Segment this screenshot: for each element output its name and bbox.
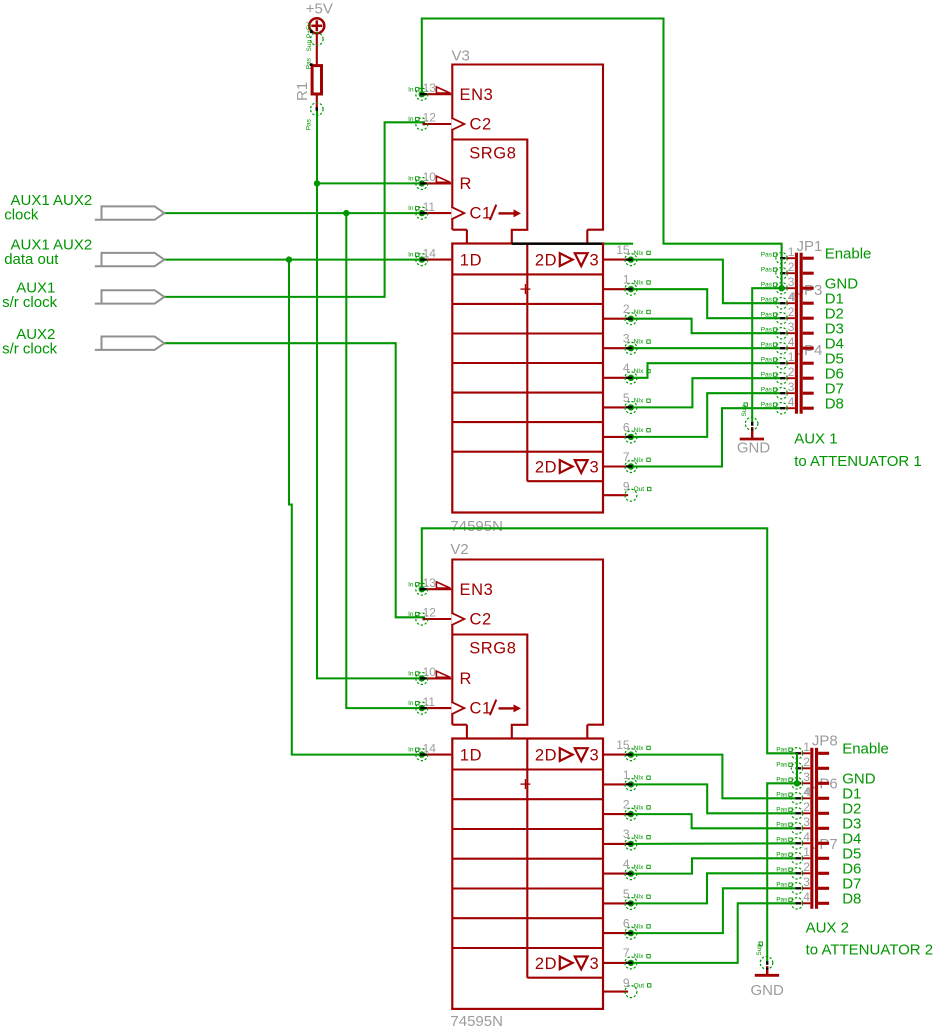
IC V2: pin 13 [408,576,451,595]
svg-text:+5V: +5V [306,1,333,18]
svg-text:Out: Out [634,982,645,989]
connector double-line bars [810,748,818,909]
IC V3: pin 10 [408,170,451,189]
IC V3: clock input mark [451,118,464,130]
svg-text:74595N: 74595N [450,1013,503,1030]
svg-text:Pas: Pas [776,746,788,753]
IC V2: clock input mark [451,702,464,714]
svg-text:NIx: NIx [634,368,645,375]
svg-text:GND: GND [751,982,785,999]
IC V3: pin label R [460,175,473,193]
svg-text:Pas: Pas [776,821,788,828]
IC V3: register block grid [452,244,603,513]
power +5V supply symbol [306,1,333,66]
wire: net DATA (AUX1 AUX2 data out) flag to V3 pin14 1D [164,259,422,261]
svg-text:3: 3 [788,320,795,334]
svg-text:5: 5 [623,887,630,901]
svg-text:2: 2 [803,755,810,769]
svg-text:C1: C1 [470,700,492,718]
svg-text:Pas: Pas [761,341,773,348]
svg-text:to ATTENUATOR 2: to ATTENUATOR 2 [806,942,934,959]
svg-text:12: 12 [423,606,437,620]
svg-text:2D: 2D [535,955,557,973]
svg-text:2: 2 [623,302,630,316]
svg-text:NIx: NIx [634,834,645,841]
IC V2: pin 3 (output) [603,827,650,850]
svg-text:Out: Out [634,486,645,493]
svg-text:4: 4 [788,335,795,349]
wire: net RESET branch down to V2 pin10 R [317,183,422,678]
svg-text:data out: data out [4,251,59,268]
net label D7 (JP1 side) [825,381,844,398]
wire: pins 1-2-3 tie [796,753,798,783]
svg-text:SRG8: SRG8 [469,640,516,658]
IC V2 74595N: control block outline [452,560,603,739]
IC V3: cell label 1D [460,252,482,270]
svg-text:3: 3 [788,380,795,394]
IC V2: pin label C2 [470,611,492,629]
svg-text:74595N: 74595N [450,518,503,535]
IC V2: cell label 1D [460,747,482,765]
connector pin row 2 [761,365,814,384]
IC V3: pin label C1/-> [470,205,522,223]
connector pin row 4 [761,395,814,414]
connector pin row 2 [776,755,829,774]
net label D8 (JP1 side) [825,396,844,413]
svg-text:Pas: Pas [761,326,773,333]
input flag: AUX2 s/r clock [2,326,164,358]
svg-text:Pas: Pas [776,776,788,783]
svg-text:3: 3 [803,770,810,784]
svg-text:1D: 1D [460,747,482,765]
IC V2: pin edge-triangle mark [436,582,450,588]
IC V2: cell label 2D&gt;v3 top [535,747,599,765]
connector pin row 3 [776,815,829,834]
wire: V3 Q outputs to JP1/JP3/JP4 D1..D8 [631,260,782,467]
connector label JP7 [812,836,838,853]
svg-text:R: R [460,670,473,688]
svg-text:2: 2 [623,798,630,812]
svg-text:R: R [460,175,473,193]
net label D1 (JP8 side) [842,786,861,803]
svg-text:In: In [408,671,414,678]
svg-text:Pas: Pas [776,791,788,798]
overlap: wire over V3 register top edge [512,243,602,245]
junction: DATA net branch [286,256,292,262]
svg-text:In: In [408,86,414,93]
svg-text:6: 6 [623,420,630,434]
connector label JP1 [797,238,823,255]
svg-text:1: 1 [623,768,630,782]
svg-text:15: 15 [616,243,630,257]
svg-text:AUX 1: AUX 1 [794,430,837,447]
svg-text:Pas: Pas [305,118,312,130]
IC V3: pin 15 (output) [603,243,650,266]
svg-text:Pas: Pas [776,881,788,888]
connector pin row 1 [761,245,814,264]
IC V3: pin 3 (output) [603,332,650,355]
svg-text:R1: R1 [294,82,311,101]
connector pin row 4 [761,290,814,309]
wire: net RESET from R1 to V3 pin10 R [316,109,318,183]
svg-text:In: In [408,252,414,259]
IC V3: pin label C2 [470,116,492,134]
svg-text:EN3: EN3 [460,581,494,599]
svg-text:1: 1 [803,740,810,754]
svg-text:11: 11 [423,200,436,214]
ground GND symbol (lower, AUX2) [751,942,785,999]
wire: net CLOCK branch down to V2 pin11 C1 [346,213,422,708]
svg-text:NIx: NIx [634,250,645,257]
svg-text:Pas: Pas [761,386,773,393]
IC V2: pin 15 (output) [603,738,650,761]
label to ATTENUATOR 2 [806,942,934,959]
svg-text:13: 13 [423,576,437,590]
IC V3: pin 7 (output) [603,450,650,473]
connector pin row 3 [761,380,814,399]
net label D3 (JP8 side) [842,816,861,833]
svg-text:5: 5 [623,391,630,405]
svg-text:4: 4 [789,290,796,304]
input flag: AUX1 AUX2 clock [4,192,164,224]
svg-text:4: 4 [803,890,810,904]
IC V2: clock input mark [451,613,464,625]
IC V3: pin 6 (output) [603,420,650,443]
IC V3 74595N: control block outline [452,65,603,244]
connector pin row 2 [776,860,829,879]
net label D6 (JP1 side) [825,366,844,383]
svg-text:s/r clock: s/r clock [2,294,58,311]
svg-text:Pas: Pas [761,266,773,273]
ground GND symbol (upper, AUX1) [737,403,771,457]
svg-text:15: 15 [616,738,630,752]
IC V3: pin edge-triangle mark [436,176,450,182]
IC V2: pin 10 [408,665,451,684]
svg-text:1: 1 [788,350,795,364]
svg-text:In: In [408,700,414,707]
svg-text:Pas: Pas [776,761,788,768]
net label D5 (JP1 side) [825,351,844,368]
svg-text:NIx: NIx [634,864,645,871]
svg-text:12: 12 [423,111,437,125]
svg-text:7: 7 [623,946,630,960]
IC V2: cell label 2D&gt;v3 bottom [535,955,599,973]
IC V3: label SRG8 [469,145,516,163]
connector label JP4 [797,342,823,359]
svg-text:2: 2 [788,305,795,319]
wire: GND net JP8 pin3 down to ground symbol [767,783,797,962]
svg-text:Pas: Pas [761,401,773,408]
svg-text:2: 2 [803,860,810,874]
net label D5 (JP8 side) [842,846,861,863]
svg-text:C2: C2 [470,116,492,134]
svg-text:D8: D8 [825,396,844,413]
IC V2: pin 11 [408,695,451,714]
svg-text:10: 10 [423,665,437,679]
label V3 [452,47,470,64]
IC V2: pin 6 (output) [603,917,650,940]
net label D2 (JP8 side) [842,801,861,818]
svg-text:2: 2 [803,800,810,814]
svg-text:Pas: Pas [776,851,788,858]
IC V2: pin label EN3 [460,581,494,599]
svg-text:2D: 2D [535,459,557,477]
junction on GND pin row 3 [794,780,800,786]
label to ATTENUATOR 1 [794,453,922,470]
svg-text:V2: V2 [450,541,468,558]
net label GND (JP1 side) [825,276,859,293]
connector pin row 4 [776,890,829,909]
connector pin row 1 [776,845,829,864]
connector label JP8 [812,733,838,750]
svg-text:4: 4 [805,785,812,799]
svg-text:3: 3 [590,955,600,973]
connector pin row 3 [761,275,814,294]
label V2 [450,541,468,558]
svg-text:2: 2 [788,365,795,379]
svg-text:s/r clock: s/r clock [2,341,58,358]
svg-text:In: In [408,176,414,183]
svg-text:Pas: Pas [761,281,773,288]
IC V2: pin 12 [408,606,451,625]
IC V2: pin edge-triangle mark [436,671,450,677]
svg-text:3: 3 [590,747,600,765]
IC V2: pin 2 (output) [603,798,650,821]
connector pin row 3 [776,875,829,894]
svg-text:In: In [408,581,414,588]
wire end overlap at V2 pin12 [423,618,426,621]
svg-text:AUX 2: AUX 2 [806,920,849,937]
svg-text:EN3: EN3 [460,86,494,104]
connector pin row 2 [761,260,814,279]
svg-text:3: 3 [788,275,795,289]
wire: net SRCLK1 (AUX1 s/r clock) flag to V3 pin12 C2 [164,122,425,297]
svg-text:Pas: Pas [776,836,788,843]
net label GND (JP8 side) [842,771,876,788]
svg-text:NIx: NIx [634,894,645,901]
net label D4 (JP8 side) [842,831,861,848]
IC V2: origin cross [520,779,530,789]
svg-text:In: In [408,747,414,754]
svg-text:14: 14 [423,246,437,260]
svg-text:In: In [408,205,414,212]
junction: CLOCK net branch [343,210,349,216]
svg-text:Pas: Pas [776,866,788,873]
svg-text:NIx: NIx [634,280,645,287]
wire: net DATA branch down to V2 pin14 1D [289,260,422,755]
wire: net CLOCK (AUX1 AUX2 clock) flag to V3 pin11 C1 [164,212,422,214]
IC V3: pin 1 (output) [603,273,650,296]
connector pin row 1 [761,350,814,369]
svg-text:Sup P+5V: Sup P+5V [306,21,313,51]
IC V3: pin 12 [408,111,451,130]
svg-text:NIx: NIx [634,398,645,405]
IC V2: pin 5 (output) [603,887,650,910]
IC V3: cell label 2D&gt;v3 bottom [535,459,599,477]
IC V3: clock input mark [451,207,464,219]
net label Enable (JP8 side) [842,741,889,758]
svg-text:In: In [408,611,414,618]
wire: pins 1-2-3 tie [781,258,783,288]
IC V3: pin 5 (output) [603,391,650,414]
svg-text:NIx: NIx [634,309,645,316]
net label D1 (JP1 side) [825,291,844,308]
svg-text:NIx: NIx [634,923,645,930]
IC V2: label SRG8 [469,640,516,658]
svg-text:NIx: NIx [634,804,645,811]
svg-text:2: 2 [788,260,795,274]
IC V3: origin cross [520,284,530,294]
svg-text:NIx: NIx [634,427,645,434]
svg-text:3: 3 [623,827,630,841]
resistor R1 [294,57,323,130]
net label D2 (JP1 side) [825,306,844,323]
IC V3: cell label 2D&gt;v3 top [535,252,599,270]
svg-text:Pas: Pas [761,296,773,303]
wire: net SRCLK2 (AUX2 s/r clock) flag to V2 pin12 C2 [164,343,425,617]
svg-text:Pas: Pas [761,311,773,318]
IC V2: pin 1 (output) [603,768,650,791]
connector pin row 2 [761,305,814,324]
svg-text:NIx: NIx [634,775,645,782]
wire end overlap at V3 pin12 [423,123,426,126]
svg-text:3: 3 [803,875,810,889]
svg-text:3: 3 [623,332,630,346]
svg-text:V3: V3 [452,47,470,64]
junction: RESET net branch [314,180,320,186]
IC V2: SRG8 inner box [452,635,527,739]
net label D4 (JP1 side) [825,336,844,353]
svg-text:13: 13 [423,81,437,95]
connector pin row 3 [761,320,814,339]
IC V3: pin 14 [408,246,451,265]
svg-text:JP8: JP8 [812,733,838,750]
svg-text:3: 3 [803,815,810,829]
IC V3: pin label EN3 [460,86,494,104]
connector label JP3 [797,282,823,299]
svg-text:Enable: Enable [825,246,872,263]
net label D6 (JP8 side) [842,861,861,878]
svg-text:C1: C1 [470,205,492,223]
svg-text:9: 9 [623,976,630,990]
svg-text:Pas: Pas [776,806,788,813]
svg-text:9: 9 [623,480,630,494]
svg-text:JP1: JP1 [797,238,823,255]
net label D8 (JP8 side) [842,891,861,908]
net label D7 (JP8 side) [842,876,861,893]
svg-text:Enable: Enable [842,741,889,758]
wire: V2 Q outputs to JP8/JP6/JP7 D1..D8 [631,755,797,963]
label AUX 1 [794,430,837,447]
svg-text:1: 1 [803,845,810,859]
wire: net ENABLE2 from V2 EN3 pin13 to JP8 pin1 [422,528,797,753]
IC V3: pin 4 (output) [603,361,650,384]
IC V3: pin 11 [408,200,451,219]
value 74595N (V3) [450,518,503,535]
input flag: AUX1 AUX2 data out [4,236,164,268]
IC V2: pin 4 (output) [603,857,650,880]
IC V3: pin 2 (output) [603,302,650,325]
IC V2: register block grid [452,739,603,1009]
IC V3: pin edge-triangle mark [436,87,450,93]
svg-text:4: 4 [623,361,630,375]
IC V2: pin 14 [408,741,451,760]
svg-text:Pas: Pas [761,251,773,258]
input flag: AUX1 s/r clock [2,279,164,311]
net label Enable (JP1 side) [825,246,872,263]
IC V2: pin 7 (output) [603,946,650,969]
connector pin row 4 [776,785,829,804]
IC V2: pin label R [460,670,473,688]
svg-text:4: 4 [788,395,795,409]
svg-text:4: 4 [803,830,810,844]
IC V2: pin label C1/-> [470,700,522,718]
svg-text:Pas: Pas [776,896,788,903]
svg-text:2D: 2D [535,252,557,270]
svg-text:3: 3 [590,459,600,477]
connector double-line bars [795,253,803,414]
svg-text:6: 6 [623,917,630,931]
svg-text:2D: 2D [535,747,557,765]
svg-text:1D: 1D [460,252,482,270]
svg-text:to ATTENUATOR 1: to ATTENUATOR 1 [794,453,922,470]
svg-text:1: 1 [623,273,630,287]
connector pin row 3 [776,770,829,789]
svg-text:D8: D8 [842,891,861,908]
junction on GND pin row 3 [778,285,784,291]
svg-text:10: 10 [423,170,437,184]
svg-text:7: 7 [623,450,630,464]
connector pin row 2 [776,800,829,819]
svg-text:3: 3 [590,252,600,270]
svg-text:SRG8: SRG8 [469,145,516,163]
wire: GND net JP1 pin3 down to ground symbol [752,288,781,423]
IC V3: pin 9 (output, open) [603,480,651,502]
connector pin row 4 [776,830,829,849]
IC V3: SRG8 inner box [452,140,527,244]
svg-text:4: 4 [623,857,630,871]
svg-text:clock: clock [4,207,39,224]
svg-text:GND: GND [737,440,771,457]
svg-text:NIx: NIx [634,339,645,346]
wire: net ENABLE1 from V3 EN3 pin13 to JP1 pin1 [422,19,782,259]
svg-text:11: 11 [423,695,436,709]
connector label JP6 [812,776,838,793]
svg-text:Pas: Pas [761,356,773,363]
net label D3 (JP1 side) [825,321,844,338]
wire: stub on V3 register top edge [512,243,633,245]
svg-text:1: 1 [788,245,795,259]
value 74595N (V2) [450,1013,503,1030]
label AUX 2 [806,920,849,937]
connector pin row 1 [776,740,829,759]
svg-text:C2: C2 [470,611,492,629]
connector pin row 4 [761,335,814,354]
svg-text:In: In [408,116,414,123]
svg-text:NIx: NIx [634,457,645,464]
svg-text:NIx: NIx [634,953,645,960]
IC V3: pin 13 [408,81,451,100]
IC V2: pin 9 (output, open) [603,976,651,998]
svg-text:NIx: NIx [634,745,645,752]
svg-text:Pas: Pas [761,371,773,378]
svg-text:14: 14 [423,741,437,755]
